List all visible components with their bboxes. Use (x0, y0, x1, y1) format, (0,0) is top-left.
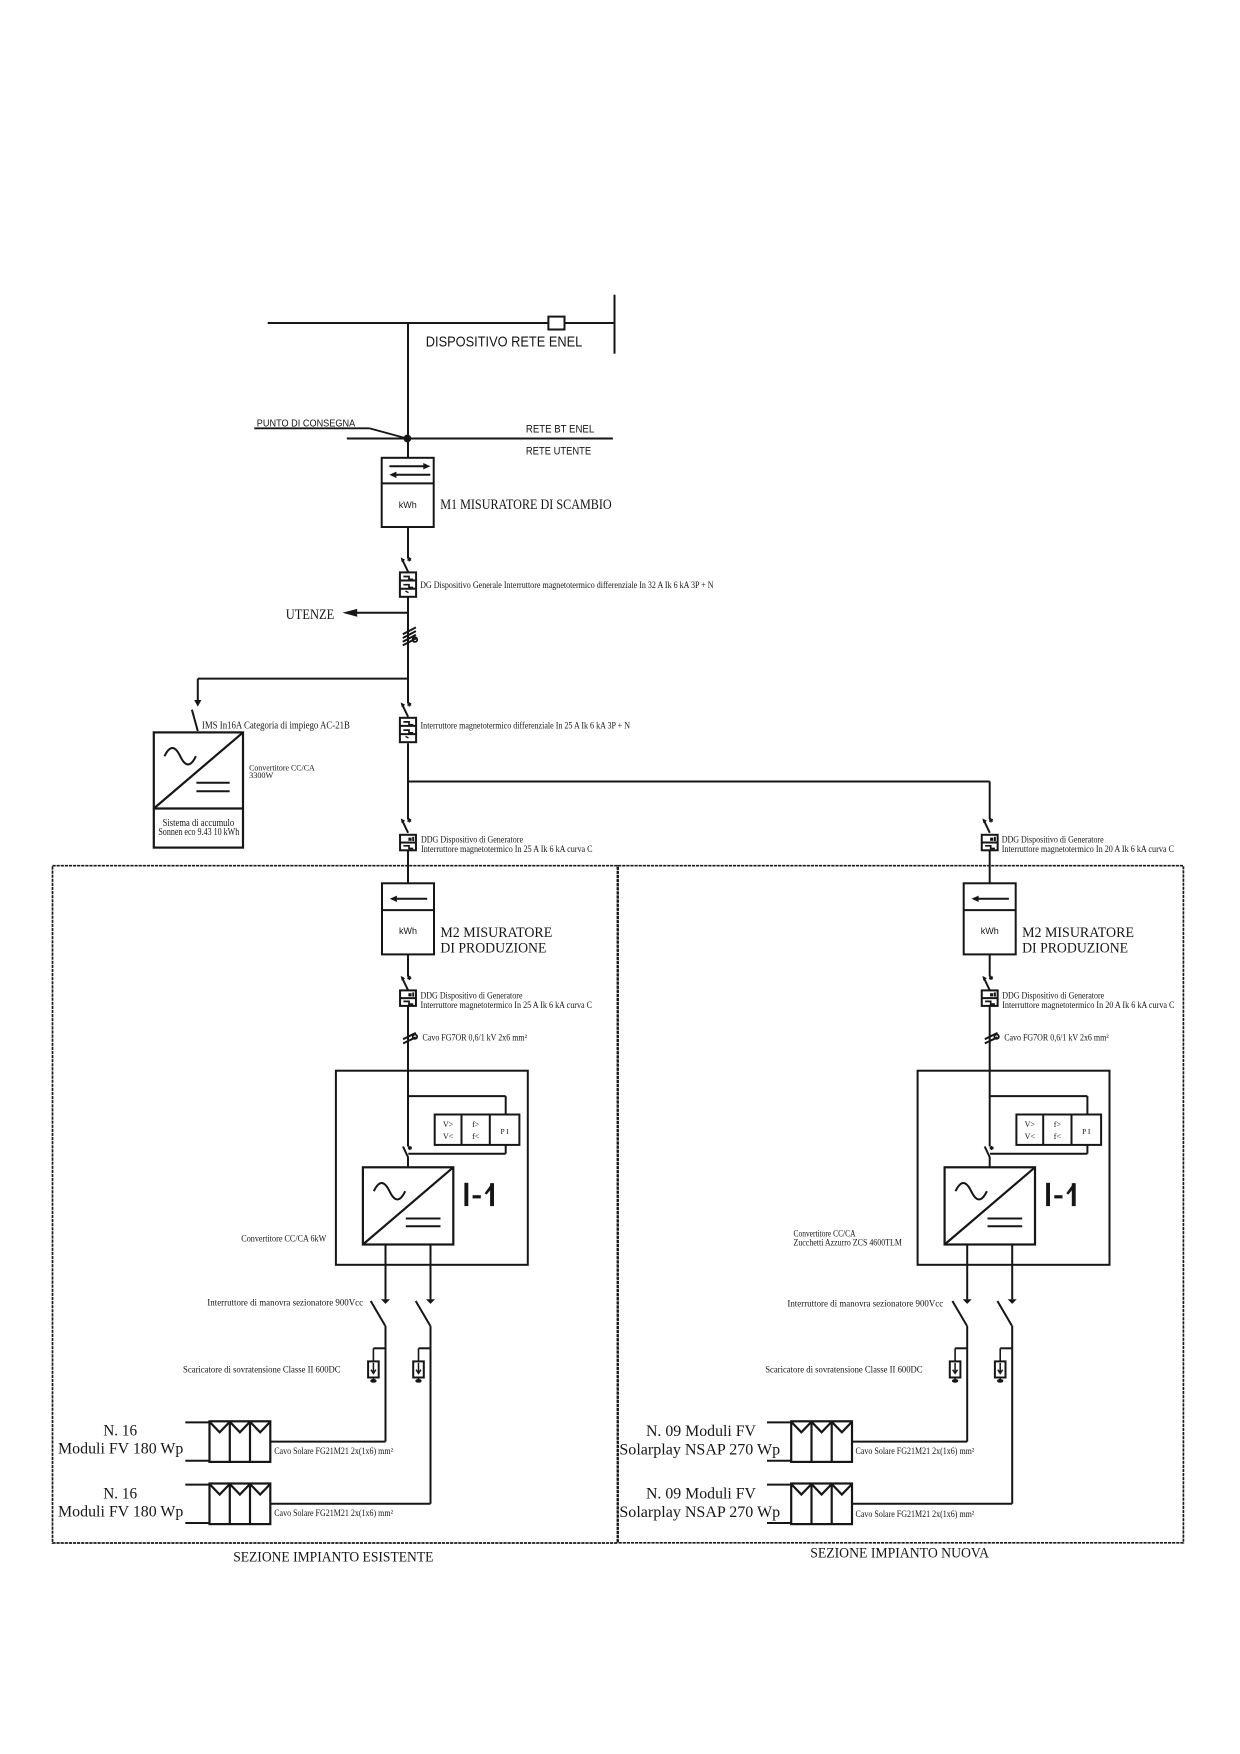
svg-text:RETE BT ENEL: RETE BT ENEL (526, 423, 594, 435)
svg-text:3300W: 3300W (249, 770, 274, 780)
svg-text:Cavo FG7OR 0,6/1 kV 2x6 mm²: Cavo FG7OR 0,6/1 kV 2x6 mm² (1004, 1033, 1109, 1043)
svg-text:N. 16: N. 16 (103, 1486, 137, 1503)
svg-text:M2 MISURATORE: M2 MISURATORE (1022, 925, 1134, 941)
svg-text:Cavo Solare FG21M21 2x(1x6) mm: Cavo Solare FG21M21 2x(1x6) mm² (274, 1446, 393, 1456)
svg-text:DI PRODUZIONE: DI PRODUZIONE (440, 941, 546, 957)
svg-text:N. 09 Moduli FV: N. 09 Moduli FV (646, 1423, 757, 1440)
svg-text:M2 MISURATORE: M2 MISURATORE (440, 925, 552, 941)
svg-text:Interruttore magnetotermico I: Interruttore magnetotermico In 25 A Ik 6… (421, 844, 593, 854)
svg-text:N. 16: N. 16 (103, 1423, 137, 1440)
svg-text:Sonnen eco 9.43 10 kWh: Sonnen eco 9.43 10 kWh (158, 827, 239, 838)
svg-text:UTENZE: UTENZE (286, 607, 335, 623)
svg-text:Interruttore magnetotermico I: Interruttore magnetotermico In 20 A Ik 6… (1002, 844, 1174, 854)
svg-text:DI PRODUZIONE: DI PRODUZIONE (1022, 941, 1128, 957)
svg-text:Interruttore magnetotermico di: Interruttore magnetotermico differenzial… (421, 721, 631, 731)
svg-text:IMS In16A Categoria di impiego: IMS In16A Categoria di impiego AC-21B (202, 720, 350, 731)
svg-text:Interruttore di manovra sezion: Interruttore di manovra sezionatore 900V… (787, 1300, 943, 1310)
svg-text:Interruttore di manovra sezion: Interruttore di manovra sezionatore 900V… (207, 1299, 363, 1309)
svg-text:Solarplay NSAP 270 Wp: Solarplay NSAP 270 Wp (619, 1442, 780, 1459)
svg-text:DG Dispositivo Generale Interr: DG Dispositivo Generale Interruttore mag… (420, 580, 714, 590)
svg-text:SEZIONE IMPIANTO NUOVA: SEZIONE IMPIANTO NUOVA (810, 1546, 989, 1562)
svg-text:Cavo Solare FG21M21 2x(1x6) mm: Cavo Solare FG21M21 2x(1x6) mm² (856, 1509, 975, 1519)
svg-text:M1 MISURATORE DI SCAMBIO: M1 MISURATORE DI SCAMBIO (440, 497, 612, 513)
svg-text:Interruttore magnetotermico I: Interruttore magnetotermico In 25 A Ik 6… (421, 1000, 593, 1010)
svg-text:Scaricatore di sovratensione C: Scaricatore di sovratensione Classe II 6… (765, 1366, 922, 1376)
svg-text:kWh: kWh (399, 500, 417, 510)
svg-text:Cavo Solare FG21M21 2x(1x6) mm: Cavo Solare FG21M21 2x(1x6) mm² (274, 1508, 393, 1518)
svg-text:Moduli FV 180 Wp: Moduli FV 180 Wp (58, 1504, 184, 1521)
svg-text:DISPOSITIVO RETE ENEL: DISPOSITIVO RETE ENEL (426, 333, 583, 350)
svg-text:Cavo FG7OR 0,6/1 kV 2x6 mm²: Cavo FG7OR 0,6/1 kV 2x6 mm² (423, 1033, 528, 1043)
svg-text:Solarplay NSAP 270 Wp: Solarplay NSAP 270 Wp (619, 1504, 780, 1521)
svg-text:SEZIONE IMPIANTO ESISTENTE: SEZIONE IMPIANTO ESISTENTE (233, 1550, 433, 1566)
svg-text:N. 09 Moduli FV: N. 09 Moduli FV (646, 1486, 757, 1503)
svg-text:PUNTO DI CONSEGNA: PUNTO DI CONSEGNA (257, 418, 355, 430)
svg-text:Convertitore CC/CA 6kW: Convertitore CC/CA 6kW (241, 1234, 326, 1244)
svg-text:RETE UTENTE: RETE UTENTE (526, 446, 591, 458)
svg-text:Scaricatore di sovratensione C: Scaricatore di sovratensione Classe II 6… (183, 1366, 341, 1376)
svg-text:Cavo Solare FG21M21 2x(1x6) mm: Cavo Solare FG21M21 2x(1x6) mm² (856, 1446, 975, 1456)
svg-text:Moduli FV 180 Wp: Moduli FV 180 Wp (58, 1441, 184, 1458)
svg-text:Interruttore magnetotermico I: Interruttore magnetotermico In 20 A Ik 6… (1002, 1000, 1174, 1010)
svg-text:Zucchetti Azzurro ZCS 4600TLM: Zucchetti Azzurro ZCS 4600TLM (794, 1238, 902, 1248)
